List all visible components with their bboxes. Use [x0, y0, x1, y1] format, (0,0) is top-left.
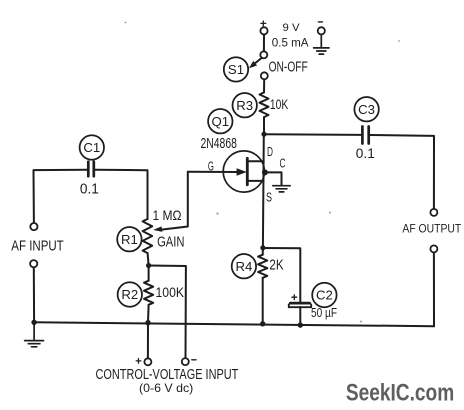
svg-text:Q1: Q1: [212, 114, 230, 129]
label R4: [232, 254, 256, 278]
wire R3 bottom to drain node: [263, 117, 265, 134]
AF input lower terminal: [30, 260, 37, 267]
svg-text:C3: C3: [358, 102, 375, 117]
svg-text:C: C: [280, 156, 286, 170]
label C1: [80, 135, 104, 159]
node R4 bus junction: [260, 321, 265, 326]
wire drain node to C3: [264, 133, 361, 136]
label R1: [117, 227, 141, 251]
svg-text:9 V: 9 V: [283, 22, 301, 34]
label R3: [233, 93, 257, 117]
wire source node to C2: [263, 248, 300, 302]
svg-text:GAIN: GAIN: [157, 234, 184, 250]
node drain junction: [261, 132, 266, 137]
svg-text:0.5 mA: 0.5 mA: [272, 36, 309, 50]
svg-text:50 µF: 50 µF: [311, 306, 337, 320]
wire R2 bottom to bus: [147, 305, 150, 323]
switch fixed terminal: [261, 72, 268, 79]
node AF input ground junction: [31, 320, 36, 325]
svg-text:G: G: [208, 160, 214, 174]
wiper arrowhead: [153, 226, 162, 232]
resistor R3 zigzag: [260, 92, 269, 117]
switch S1 blade: [249, 58, 262, 69]
wire AF input upper to C1: [34, 170, 88, 223]
wire R4 bottom to bus: [262, 278, 264, 324]
control plus sign: [136, 359, 141, 364]
control plus terminal: [144, 358, 151, 365]
svg-text:S1: S1: [228, 62, 244, 77]
wire R1 bottom to junction: [148, 253, 149, 266]
wire drain-source vertical: [262, 134, 265, 248]
svg-text:S: S: [266, 191, 272, 205]
label C2: [312, 283, 336, 307]
label R2: [118, 282, 142, 306]
wire AF output lower to bus: [433, 252, 435, 326]
battery plus sign: [261, 21, 266, 26]
svg-text:2N4868: 2N4868: [201, 136, 237, 152]
AF output lower terminal: [430, 245, 437, 252]
label Q1: [208, 109, 232, 133]
C2 plus sign: [292, 295, 297, 300]
battery minus sign: [318, 21, 322, 23]
speck marks: [125, 22, 400, 323]
svg-text:R4: R4: [235, 259, 252, 274]
svg-text:D: D: [267, 145, 273, 159]
battery minus terminal: [318, 27, 325, 34]
resistor R4 zigzag: [258, 255, 267, 278]
resistor R2 zigzag: [144, 281, 153, 305]
switch pole terminal: [260, 51, 267, 58]
wire bus to control plus terminal: [147, 323, 149, 359]
svg-text:(0-6 V dc): (0-6 V dc): [139, 381, 193, 395]
ground case: [273, 184, 290, 192]
wire wiper vertical: [161, 172, 188, 230]
label S1: [224, 57, 248, 81]
wire switch to R3: [263, 79, 265, 92]
capacitor C1 plates: [88, 162, 94, 177]
wire C1 to R1 top: [95, 170, 148, 219]
node case junction: [262, 169, 268, 175]
wire battery plus lead: [263, 34, 265, 51]
label C3: [354, 97, 378, 121]
wire C3 to AF output corner: [370, 135, 434, 209]
wire R2 top: [148, 266, 150, 281]
svg-text:10K: 10K: [270, 96, 289, 112]
svg-text:C2: C2: [316, 288, 333, 303]
wire source to R4: [262, 248, 264, 255]
svg-text:0.1: 0.1: [80, 182, 99, 198]
svg-text:R2: R2: [121, 287, 138, 302]
svg-text:2K: 2K: [269, 258, 284, 274]
wire case lead: [265, 172, 282, 185]
potentiometer R1 zigzag: [143, 219, 153, 253]
AF output upper terminal: [430, 209, 437, 216]
svg-text:R3: R3: [236, 98, 253, 113]
svg-text:AF OUTPUT: AF OUTPUT: [402, 224, 461, 236]
AF input upper terminal: [30, 223, 37, 230]
wire gate line: [188, 171, 238, 173]
capacitor C3 plates: [362, 127, 368, 144]
wire junction to control minus terminal: [149, 266, 186, 359]
svg-text:0.1: 0.1: [356, 145, 375, 161]
svg-text:SeekIC.com: SeekIC.com: [346, 379, 454, 406]
transistor Q1 2N4868: [223, 151, 264, 192]
node R2 bus junction: [145, 320, 150, 325]
svg-text:1 MΩ: 1 MΩ: [153, 207, 182, 223]
node C2 bus junction: [298, 322, 303, 327]
svg-text:100K: 100K: [156, 284, 185, 300]
svg-text:R1: R1: [121, 232, 138, 247]
wire AF input lower to bus: [33, 267, 35, 322]
wire C2 to bus: [299, 307, 301, 325]
node source junction: [260, 245, 265, 250]
control minus sign: [192, 359, 196, 361]
svg-text:AF INPUT: AF INPUT: [11, 237, 63, 254]
control minus terminal: [182, 358, 189, 365]
capacitor C2 plates: [289, 303, 311, 307]
node R1 R2 junction: [146, 263, 151, 268]
svg-text:C1: C1: [83, 140, 100, 155]
ground battery minus: [314, 34, 329, 54]
svg-text:ON-OFF: ON-OFF: [269, 58, 308, 75]
ground bottom left: [25, 322, 44, 347]
battery plus terminal: [260, 27, 267, 34]
ground bus wire: [34, 322, 434, 326]
